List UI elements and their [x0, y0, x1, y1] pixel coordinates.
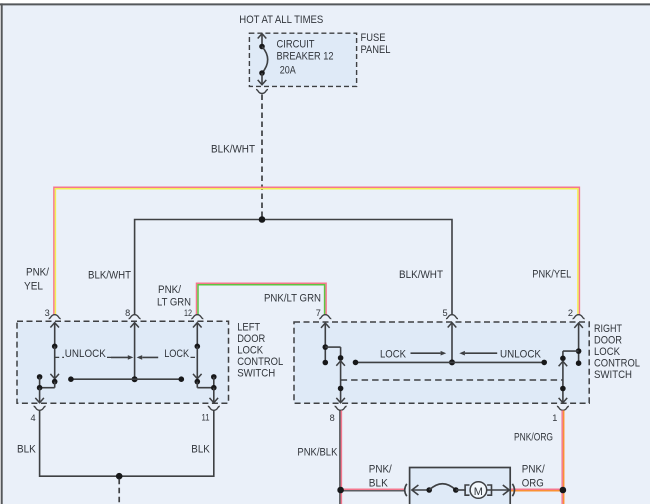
- svg-text:CONTROL: CONTROL: [237, 356, 283, 368]
- svg-text:PNK/: PNK/: [26, 267, 50, 279]
- svg-text:HOT AT ALL TIMES: HOT AT ALL TIMES: [239, 14, 323, 26]
- svg-text:BLK/WHT: BLK/WHT: [88, 270, 131, 282]
- svg-text:1: 1: [552, 413, 557, 423]
- svg-text:BLK/WHT: BLK/WHT: [211, 144, 255, 156]
- svg-text:PNK/: PNK/: [158, 284, 182, 296]
- svg-text:M: M: [474, 486, 483, 498]
- svg-text:UNLOCK: UNLOCK: [500, 349, 542, 361]
- svg-text:ORG: ORG: [522, 477, 544, 489]
- svg-text:PNK/YEL: PNK/YEL: [532, 268, 571, 280]
- svg-text:5: 5: [442, 308, 447, 318]
- svg-text:7: 7: [316, 308, 321, 318]
- svg-text:11: 11: [202, 412, 210, 422]
- svg-text:12: 12: [184, 308, 192, 318]
- svg-text:8: 8: [125, 308, 130, 318]
- svg-text:FUSE: FUSE: [361, 32, 386, 44]
- svg-text:YEL: YEL: [24, 280, 43, 292]
- svg-text:PNK/LT GRN: PNK/LT GRN: [264, 293, 321, 305]
- svg-text:LT GRN: LT GRN: [157, 297, 191, 309]
- svg-text:RIGHT: RIGHT: [594, 323, 622, 335]
- svg-text:PNK/ORG: PNK/ORG: [514, 432, 553, 444]
- svg-text:BLK: BLK: [191, 444, 210, 456]
- svg-text:BLK/WHT: BLK/WHT: [399, 269, 443, 281]
- svg-text:CIRCUIT: CIRCUIT: [277, 38, 315, 50]
- svg-text:DOOR: DOOR: [594, 335, 622, 347]
- svg-text:2: 2: [568, 308, 573, 318]
- svg-text:3: 3: [45, 308, 50, 318]
- svg-text:PNK/BLK: PNK/BLK: [297, 447, 338, 459]
- svg-text:SWITCH: SWITCH: [237, 368, 275, 380]
- svg-text:BLK: BLK: [17, 444, 36, 456]
- svg-text:PANEL: PANEL: [361, 44, 391, 56]
- svg-text:LOCK: LOCK: [594, 346, 621, 358]
- svg-text:LEFT: LEFT: [237, 321, 260, 333]
- svg-text:BLK: BLK: [369, 477, 389, 489]
- svg-text:BREAKER 12: BREAKER 12: [277, 51, 334, 63]
- svg-text:PNK/: PNK/: [369, 463, 393, 475]
- svg-text:20A: 20A: [280, 64, 297, 76]
- svg-text:8: 8: [330, 413, 335, 423]
- svg-text:UNLOCK: UNLOCK: [65, 348, 107, 360]
- svg-text:LOCK: LOCK: [237, 344, 264, 356]
- svg-text:SWITCH: SWITCH: [594, 369, 632, 381]
- svg-text:4: 4: [30, 413, 35, 423]
- svg-text:DOOR: DOOR: [237, 333, 265, 345]
- svg-text:LOCK: LOCK: [164, 348, 190, 360]
- svg-text:LOCK: LOCK: [380, 349, 407, 361]
- svg-text:CONTROL: CONTROL: [594, 358, 640, 370]
- svg-text:PNK/: PNK/: [522, 463, 546, 475]
